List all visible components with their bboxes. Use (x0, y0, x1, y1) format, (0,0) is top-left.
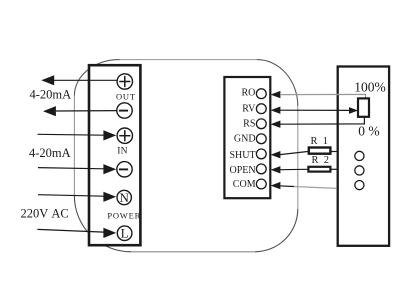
svg-text:RS: RS (243, 118, 255, 129)
svg-text:R 1: R 1 (311, 136, 329, 147)
svg-text:220V AC: 220V AC (21, 207, 69, 221)
svg-text:R 2: R 2 (311, 155, 329, 166)
svg-text:100%: 100% (354, 79, 386, 94)
svg-text:N: N (120, 190, 130, 205)
svg-text:POWER: POWER (107, 210, 141, 220)
svg-text:IN: IN (117, 147, 128, 157)
svg-text:OPEN: OPEN (229, 165, 255, 176)
svg-text:OUT: OUT (116, 92, 136, 102)
svg-text:RV: RV (242, 104, 256, 115)
svg-text:COM: COM (233, 179, 256, 190)
svg-text:4-20mA: 4-20mA (30, 88, 72, 102)
svg-text:RO: RO (241, 88, 255, 99)
svg-text:4-20mA: 4-20mA (29, 146, 71, 160)
svg-text:GND: GND (234, 134, 256, 145)
svg-text:L: L (121, 226, 129, 241)
svg-text:SHUT: SHUT (229, 150, 255, 161)
svg-text:0 %: 0 % (358, 123, 379, 138)
